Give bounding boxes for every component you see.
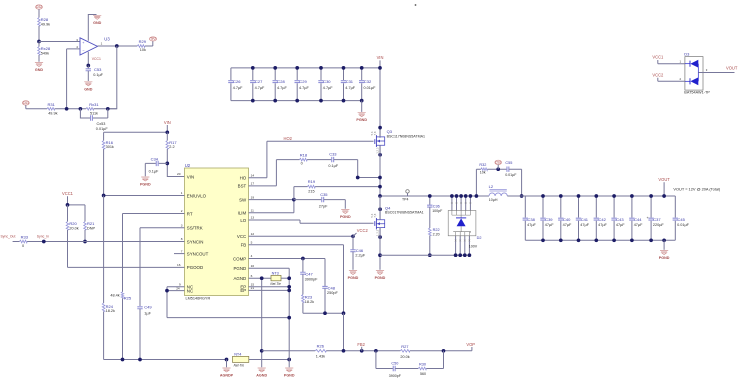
wire COMP [249, 258, 326, 260]
resistor R30 560 [395, 368, 418, 370]
svg-text:FB: FB [241, 243, 247, 248]
wire PGND pin down [249, 268, 290, 367]
svg-text:2: 2 [181, 209, 183, 213]
wire to op-amp +in [39, 41, 80, 43]
svg-text:TP4: TP4 [402, 197, 408, 201]
resistor R23 18.2k [302, 295, 305, 303]
ground AGNDP [222, 368, 230, 372]
capacitor C35 27pF [294, 199, 322, 201]
node: R30 branch [442, 349, 446, 353]
ground GND below Rx28 [38, 55, 40, 62]
svg-text:48.4k: 48.4k [110, 293, 119, 297]
svg-text:C48: C48 [328, 285, 336, 290]
svg-text:7,8: 7,8 [373, 131, 377, 135]
capacitor C42 47µF [595, 196, 597, 240]
svg-text:49.9k: 49.9k [48, 111, 57, 115]
svg-text:1,2,3: 1,2,3 [376, 229, 380, 236]
resistor Rx28 549k [38, 42, 40, 47]
svg-text:6: 6 [251, 274, 253, 278]
svg-text:100pF: 100pF [432, 209, 443, 213]
svg-text:NT4: NT4 [234, 352, 241, 356]
wire R22 to bottom rail [429, 236, 431, 256]
svg-text:2.2µF: 2.2µF [355, 254, 365, 258]
test point TP2 [149, 37, 156, 41]
svg-text:HO: HO [240, 176, 247, 181]
svg-text:PGND: PGND [348, 276, 359, 280]
D3 internal diodes [685, 63, 690, 65]
svg-text:GND: GND [84, 87, 93, 91]
wire R26 to R27 [326, 350, 400, 352]
wire PGND bottom rail [380, 254, 469, 256]
net label CS2 (sense) [495, 160, 502, 164]
svg-text:3900pF: 3900pF [389, 374, 402, 378]
wire AGND vertical [261, 278, 263, 367]
ground GND below C53 [84, 82, 92, 86]
svg-text:1,2,3: 1,2,3 [376, 147, 380, 154]
wire SYNCOUT stub [174, 253, 185, 255]
wire VCC1 to D3 pin 1 [658, 60, 685, 64]
transistor Q3 BSC117N08NS5ATMA1 [374, 139, 376, 144]
svg-text:PGND: PGND [659, 256, 670, 260]
node: C50 branch [374, 349, 378, 353]
svg-text:220µF: 220µF [653, 223, 665, 227]
node: EN junction [102, 194, 106, 198]
svg-text:C38: C38 [528, 217, 536, 222]
wire NT3 right [281, 277, 289, 279]
wire R17 to VIN pin [167, 149, 184, 177]
svg-text:RT: RT [187, 211, 193, 216]
svg-text:C31: C31 [346, 79, 354, 84]
resistor R17 2.2 [166, 132, 168, 140]
svg-text:47µF: 47µF [545, 223, 554, 227]
node: CS2 sense junction [496, 167, 500, 171]
svg-text:7: 7 [181, 249, 183, 253]
svg-text:1: 1 [181, 191, 183, 195]
svg-text:49.9k: 49.9k [41, 22, 50, 26]
svg-text:0.1µF: 0.1µF [328, 164, 338, 168]
capacitor C45 0.01µF [674, 196, 676, 240]
svg-text:C55: C55 [505, 161, 512, 165]
svg-text:LO: LO [240, 218, 246, 223]
capacitor C37 220µF [650, 196, 652, 240]
node: C33/SW junction [356, 176, 360, 180]
svg-text:17: 17 [251, 182, 255, 186]
svg-text:PGND: PGND [234, 266, 247, 271]
svg-text:C37: C37 [653, 217, 661, 222]
svg-text:C29: C29 [299, 79, 307, 84]
wire R25 to bottom line [122, 298, 124, 359]
svg-text:5: 5 [251, 241, 253, 245]
wire Q4 source down [379, 228, 381, 270]
net label FB2 [360, 349, 364, 353]
svg-text:3900pF: 3900pF [305, 277, 319, 281]
capacitor C53 0.1uF [87, 66, 89, 69]
wire R27 to VOP [410, 347, 472, 351]
power PGND (output) [660, 251, 668, 255]
svg-text:Net-Tie: Net-Tie [234, 364, 245, 368]
svg-text:560: 560 [420, 372, 426, 376]
svg-text:VOUT: VOUT [726, 66, 738, 71]
svg-text:R18: R18 [300, 152, 308, 157]
svg-text:7,8: 7,8 [373, 213, 377, 217]
svg-text:8: 8 [181, 237, 183, 241]
svg-text:C32: C32 [364, 79, 372, 84]
svg-text:SW: SW [239, 197, 247, 202]
svg-text:Net-Tie: Net-Tie [270, 282, 281, 286]
svg-text:NT3: NT3 [272, 272, 279, 276]
svg-text:14: 14 [251, 173, 255, 177]
svg-text:0.01µF: 0.01µF [364, 86, 377, 90]
svg-text:0.1µF: 0.1µF [93, 73, 103, 77]
svg-text:C53: C53 [94, 67, 102, 72]
svg-text:+: + [647, 216, 649, 220]
capacitor C44 47µF [631, 196, 633, 240]
svg-text:Cx53: Cx53 [97, 122, 106, 126]
svg-text:511k: 511k [90, 111, 98, 115]
svg-text:FB2: FB2 [357, 342, 365, 347]
resistor R31 49.9k [47, 108, 55, 111]
wire PGND drop (output) [663, 240, 665, 250]
svg-text:549k: 549k [41, 51, 49, 55]
wire R19 to SW node [315, 186, 380, 188]
wire SYNCIN line [27, 241, 184, 243]
wire SW rail [380, 195, 489, 197]
svg-text:0: 0 [301, 162, 303, 166]
svg-text:47µF: 47µF [527, 223, 536, 227]
resistor R26 1.43k [315, 350, 326, 353]
svg-text:R26: R26 [317, 343, 325, 348]
svg-text:10: 10 [251, 264, 255, 268]
node: SW/ILIM junction [292, 198, 296, 202]
svg-text:2.2: 2.2 [169, 145, 174, 149]
svg-text:1µF: 1µF [144, 311, 151, 315]
wire C33 to SW [334, 160, 380, 178]
capacitor C34 0.1uF [145, 163, 167, 176]
svg-text:C35: C35 [320, 192, 328, 197]
svg-text:L2: L2 [489, 184, 494, 189]
wire NC loop [167, 287, 289, 318]
capacitor C26 4.7µF [230, 68, 232, 101]
resistor R20 20.0k [67, 205, 69, 222]
svg-text:R29: R29 [139, 39, 147, 44]
svg-text:47µF: 47µF [598, 223, 607, 227]
capacitor C43 47µF [613, 196, 615, 240]
capacitor C41 47µF [578, 196, 580, 240]
op IC U2 LM5146RGYR body [185, 168, 249, 296]
svg-text:C41: C41 [581, 217, 589, 222]
wire VIN node [104, 125, 168, 132]
resistor Rx31 511k [86, 108, 94, 111]
svg-text:R32: R32 [479, 163, 486, 167]
wire op-amp -in [67, 49, 80, 109]
node: NT4/PGND junction [287, 358, 291, 362]
node: R21 bottom [83, 240, 87, 244]
wire SW pin [249, 199, 294, 201]
svg-text:0.01µF: 0.01µF [505, 173, 517, 177]
wire R24 to bottom line [103, 312, 105, 360]
svg-text:C36: C36 [433, 204, 440, 208]
svg-text:CS1: CS1 [23, 101, 29, 105]
svg-text:301k: 301k [106, 145, 114, 149]
power PGND (input bank) [358, 113, 366, 117]
net label CS1 [22, 101, 29, 105]
ground PGND (IC) [285, 368, 293, 372]
svg-text:C43: C43 [616, 217, 624, 222]
wire LO to Q4 gate [249, 220, 374, 223]
svg-text:C47: C47 [305, 272, 313, 277]
svg-text:R30: R30 [419, 362, 426, 366]
svg-text:D2: D2 [477, 236, 482, 240]
svg-text:C42: C42 [599, 217, 607, 222]
node: Cx53 right [106, 107, 110, 111]
svg-text:C46: C46 [356, 248, 364, 253]
svg-text:C50: C50 [391, 361, 398, 365]
wire FB divider rail [262, 350, 316, 352]
svg-text:VOP: VOP [466, 342, 475, 347]
svg-text:PGND: PGND [284, 374, 295, 378]
svg-text:VCC: VCC [237, 234, 246, 239]
svg-text:D3: D3 [684, 52, 690, 57]
node: VIN rail junction [378, 66, 382, 70]
svg-text:CS2: CS2 [495, 161, 501, 165]
wire R29 to TP2 [145, 41, 153, 46]
svg-text:C30: C30 [323, 79, 331, 84]
resistor R33 0 [13, 241, 20, 243]
node: COMP/C47 junction [301, 257, 305, 261]
node: C34 junction [165, 162, 169, 166]
resistor R21 DNP [84, 222, 87, 231]
svg-text:PGND: PGND [356, 118, 367, 122]
resistor R18 0 [300, 158, 308, 161]
capacitor C40 47µF [560, 196, 562, 240]
wire VCC [249, 235, 354, 237]
svg-text:C26: C26 [233, 79, 241, 84]
svg-text:12: 12 [251, 232, 255, 236]
inductor L2 10uH [489, 193, 507, 196]
svg-text:4.7µF: 4.7µF [233, 86, 243, 90]
svg-text:0.1µF: 0.1µF [149, 170, 159, 174]
wire FB [249, 245, 344, 313]
svg-text:VCC1: VCC1 [652, 55, 664, 60]
svg-text:100V: 100V [469, 244, 478, 248]
resistor R24 18.2k [103, 196, 105, 304]
wire HO to Q3 gate [249, 141, 374, 177]
svg-text:BSC117N08NS5ATMA1: BSC117N08NS5ATMA1 [387, 134, 425, 138]
wire SS/TRK [140, 228, 185, 306]
svg-text:C40: C40 [563, 217, 571, 222]
wire R20 to PGOOD line [68, 230, 185, 267]
node: output junction [115, 44, 119, 48]
svg-text:VCC2: VCC2 [357, 228, 369, 233]
svg-text:19: 19 [251, 195, 255, 199]
resistor R25 48.4k [121, 292, 124, 299]
wire RT [123, 214, 185, 292]
svg-text:10k: 10k [140, 48, 146, 52]
svg-text:VIN: VIN [377, 55, 384, 60]
net tie NT3 [249, 277, 272, 279]
svg-text:Rx31: Rx31 [89, 102, 99, 107]
diode D2 (clamp) [451, 196, 453, 211]
transistor Q4 BSC017N08NS5ATMA1 [374, 221, 376, 226]
wire Rx31 right [94, 108, 117, 110]
svg-text:C39: C39 [545, 217, 553, 222]
capacitor C38 47µF [524, 196, 526, 240]
svg-text:PGND: PGND [375, 276, 386, 280]
svg-text:SS/TRK: SS/TRK [187, 226, 203, 231]
net label CS2 [36, 5, 43, 9]
svg-text:BAT54AW1-TP: BAT54AW1-TP [684, 91, 710, 95]
capacitor C48 250pF [324, 259, 326, 287]
wire op-amp output [98, 45, 138, 47]
power PGND below C46 [349, 271, 357, 275]
svg-text:PGND: PGND [140, 183, 151, 187]
svg-text:R25: R25 [124, 296, 132, 301]
capacitor C31 4.7µF [343, 68, 345, 101]
wire R21 to SYNCIN line [84, 230, 86, 242]
node: VCC junction [351, 234, 355, 238]
svg-text:C45: C45 [678, 217, 686, 222]
wire ILIM [249, 200, 294, 213]
capacitor C27 4.7µF [252, 68, 254, 101]
svg-text:AGNDP: AGNDP [220, 374, 234, 378]
wire Q3 source to SW [379, 145, 381, 196]
svg-text:SYNCOUT: SYNCOUT [187, 251, 209, 256]
wire AGNDP line [104, 359, 227, 361]
wire R31 to Rx31 [55, 108, 86, 110]
wire VCC2 to D3 pin 2 [658, 78, 685, 82]
svg-text:11: 11 [251, 209, 254, 213]
node: Sync_In junction [42, 240, 46, 244]
svg-text:16: 16 [177, 263, 181, 267]
svg-text:R27: R27 [401, 344, 409, 349]
svg-text:CS2: CS2 [36, 5, 42, 9]
resistor R28 49.9k [38, 18, 41, 26]
capacitor C33 0.1uF [332, 157, 334, 162]
svg-text:DNP: DNP [87, 226, 95, 230]
wire PGND drop (input bank) [361, 101, 363, 112]
svg-text:AGND: AGND [234, 276, 247, 281]
wire input bank bottom rail [231, 100, 362, 102]
svg-text:GND: GND [93, 21, 102, 25]
svg-text:Sync_Out: Sync_Out [1, 235, 16, 239]
capacitor C30 4.7µF [320, 68, 322, 101]
resistor R19 215 [294, 187, 308, 200]
resistor R27 20.0k [400, 350, 410, 353]
svg-text:47µF: 47µF [616, 223, 625, 227]
svg-text:EP: EP [240, 288, 246, 293]
svg-text:0.01µF: 0.01µF [677, 223, 690, 227]
capacitor C49 1uF [137, 307, 142, 309]
svg-text:47µF: 47µF [563, 223, 572, 227]
svg-text:4.7µF: 4.7µF [323, 86, 333, 90]
node: VCC1 / C53 junction [86, 64, 90, 68]
svg-text:R22: R22 [433, 228, 440, 232]
node: opamp +in junction [37, 40, 41, 44]
wire VIN drop [379, 60, 381, 137]
wire R32/C55 sense branch [476, 169, 481, 196]
svg-text:4: 4 [251, 254, 253, 258]
svg-text:C27: C27 [255, 79, 263, 84]
wire Q4 drain up to SW [379, 196, 381, 220]
capacitor C36 100pF [427, 205, 432, 207]
resistor R32 10k [481, 168, 488, 171]
svg-text:VCC2: VCC2 [652, 72, 664, 77]
svg-text:0: 0 [22, 244, 24, 248]
wire BST [249, 160, 300, 186]
svg-text:4.7µF: 4.7µF [277, 86, 287, 90]
svg-text:VCC1: VCC1 [62, 191, 74, 196]
svg-text:215: 215 [308, 190, 314, 194]
wire R23 to comp bottom [303, 303, 344, 314]
svg-text:R24: R24 [106, 304, 114, 309]
svg-text:AGND: AGND [256, 374, 267, 378]
node: NT4 left junction [225, 358, 229, 362]
wire FB down to divider [343, 313, 345, 351]
svg-text:4.7µF: 4.7µF [299, 86, 309, 90]
svg-text:C44: C44 [634, 217, 642, 222]
svg-text:R33: R33 [21, 235, 29, 240]
svg-text:C33: C33 [329, 151, 337, 156]
wire CS2 to R28 [38, 9, 40, 17]
svg-text:R31: R31 [48, 102, 56, 107]
svg-text:250pF: 250pF [327, 291, 338, 295]
svg-text:18.2k: 18.2k [305, 300, 314, 304]
svg-text:47µF: 47µF [634, 223, 643, 227]
svg-text:1.43k: 1.43k [316, 354, 325, 358]
svg-text:U2: U2 [185, 163, 191, 168]
wire VOUT rail [507, 195, 675, 197]
node: FB/comp junction [342, 311, 346, 315]
svg-text:TP2: TP2 [150, 37, 156, 41]
wire output feedback down [108, 46, 117, 109]
svg-text:PGND: PGND [340, 215, 351, 219]
svg-text:47µF: 47µF [580, 223, 589, 227]
svg-text:20.0k: 20.0k [69, 226, 78, 230]
ground AGND [258, 368, 266, 372]
node: Cx53 left [79, 107, 83, 111]
power PGND below C34 [141, 177, 149, 181]
test point TP4 [406, 190, 409, 193]
svg-text:18.2k: 18.2k [106, 309, 115, 313]
node: C48 bottom [323, 311, 327, 315]
wire R30 up to rail [426, 351, 443, 369]
capacitor C46 2.2uF [352, 236, 354, 249]
svg-text:VIN: VIN [187, 174, 194, 179]
svg-text:U3: U3 [104, 36, 110, 41]
svg-text:R19: R19 [308, 179, 316, 184]
wire snubber branch [429, 196, 431, 205]
wire R18 to C33 [307, 159, 332, 161]
node: AGND/rail junction [260, 349, 264, 353]
capacitor C29 4.7µF [296, 68, 298, 101]
ground GND above op-amp [93, 15, 101, 19]
svg-text:10k: 10k [480, 171, 486, 175]
wire output bottom rail [525, 239, 675, 241]
op-amp U3 [80, 38, 98, 55]
wire R28 to junction [38, 26, 40, 42]
node: FB tap [342, 349, 346, 353]
power PGND below C35 [341, 210, 349, 214]
wire VCC1 to R20/R21 tops [68, 196, 86, 221]
svg-text:C49: C49 [144, 304, 152, 309]
capacitor C32 0.01µF [361, 68, 363, 101]
svg-text:ILIM: ILIM [238, 211, 247, 216]
svg-text:C28: C28 [277, 79, 285, 84]
wire op-amp V+ top pin to GND [88, 15, 96, 41]
svg-text:Sync_In: Sync_In [37, 235, 49, 239]
svg-text:0.01µF: 0.01µF [96, 127, 109, 131]
wire EP pins [249, 287, 290, 291]
